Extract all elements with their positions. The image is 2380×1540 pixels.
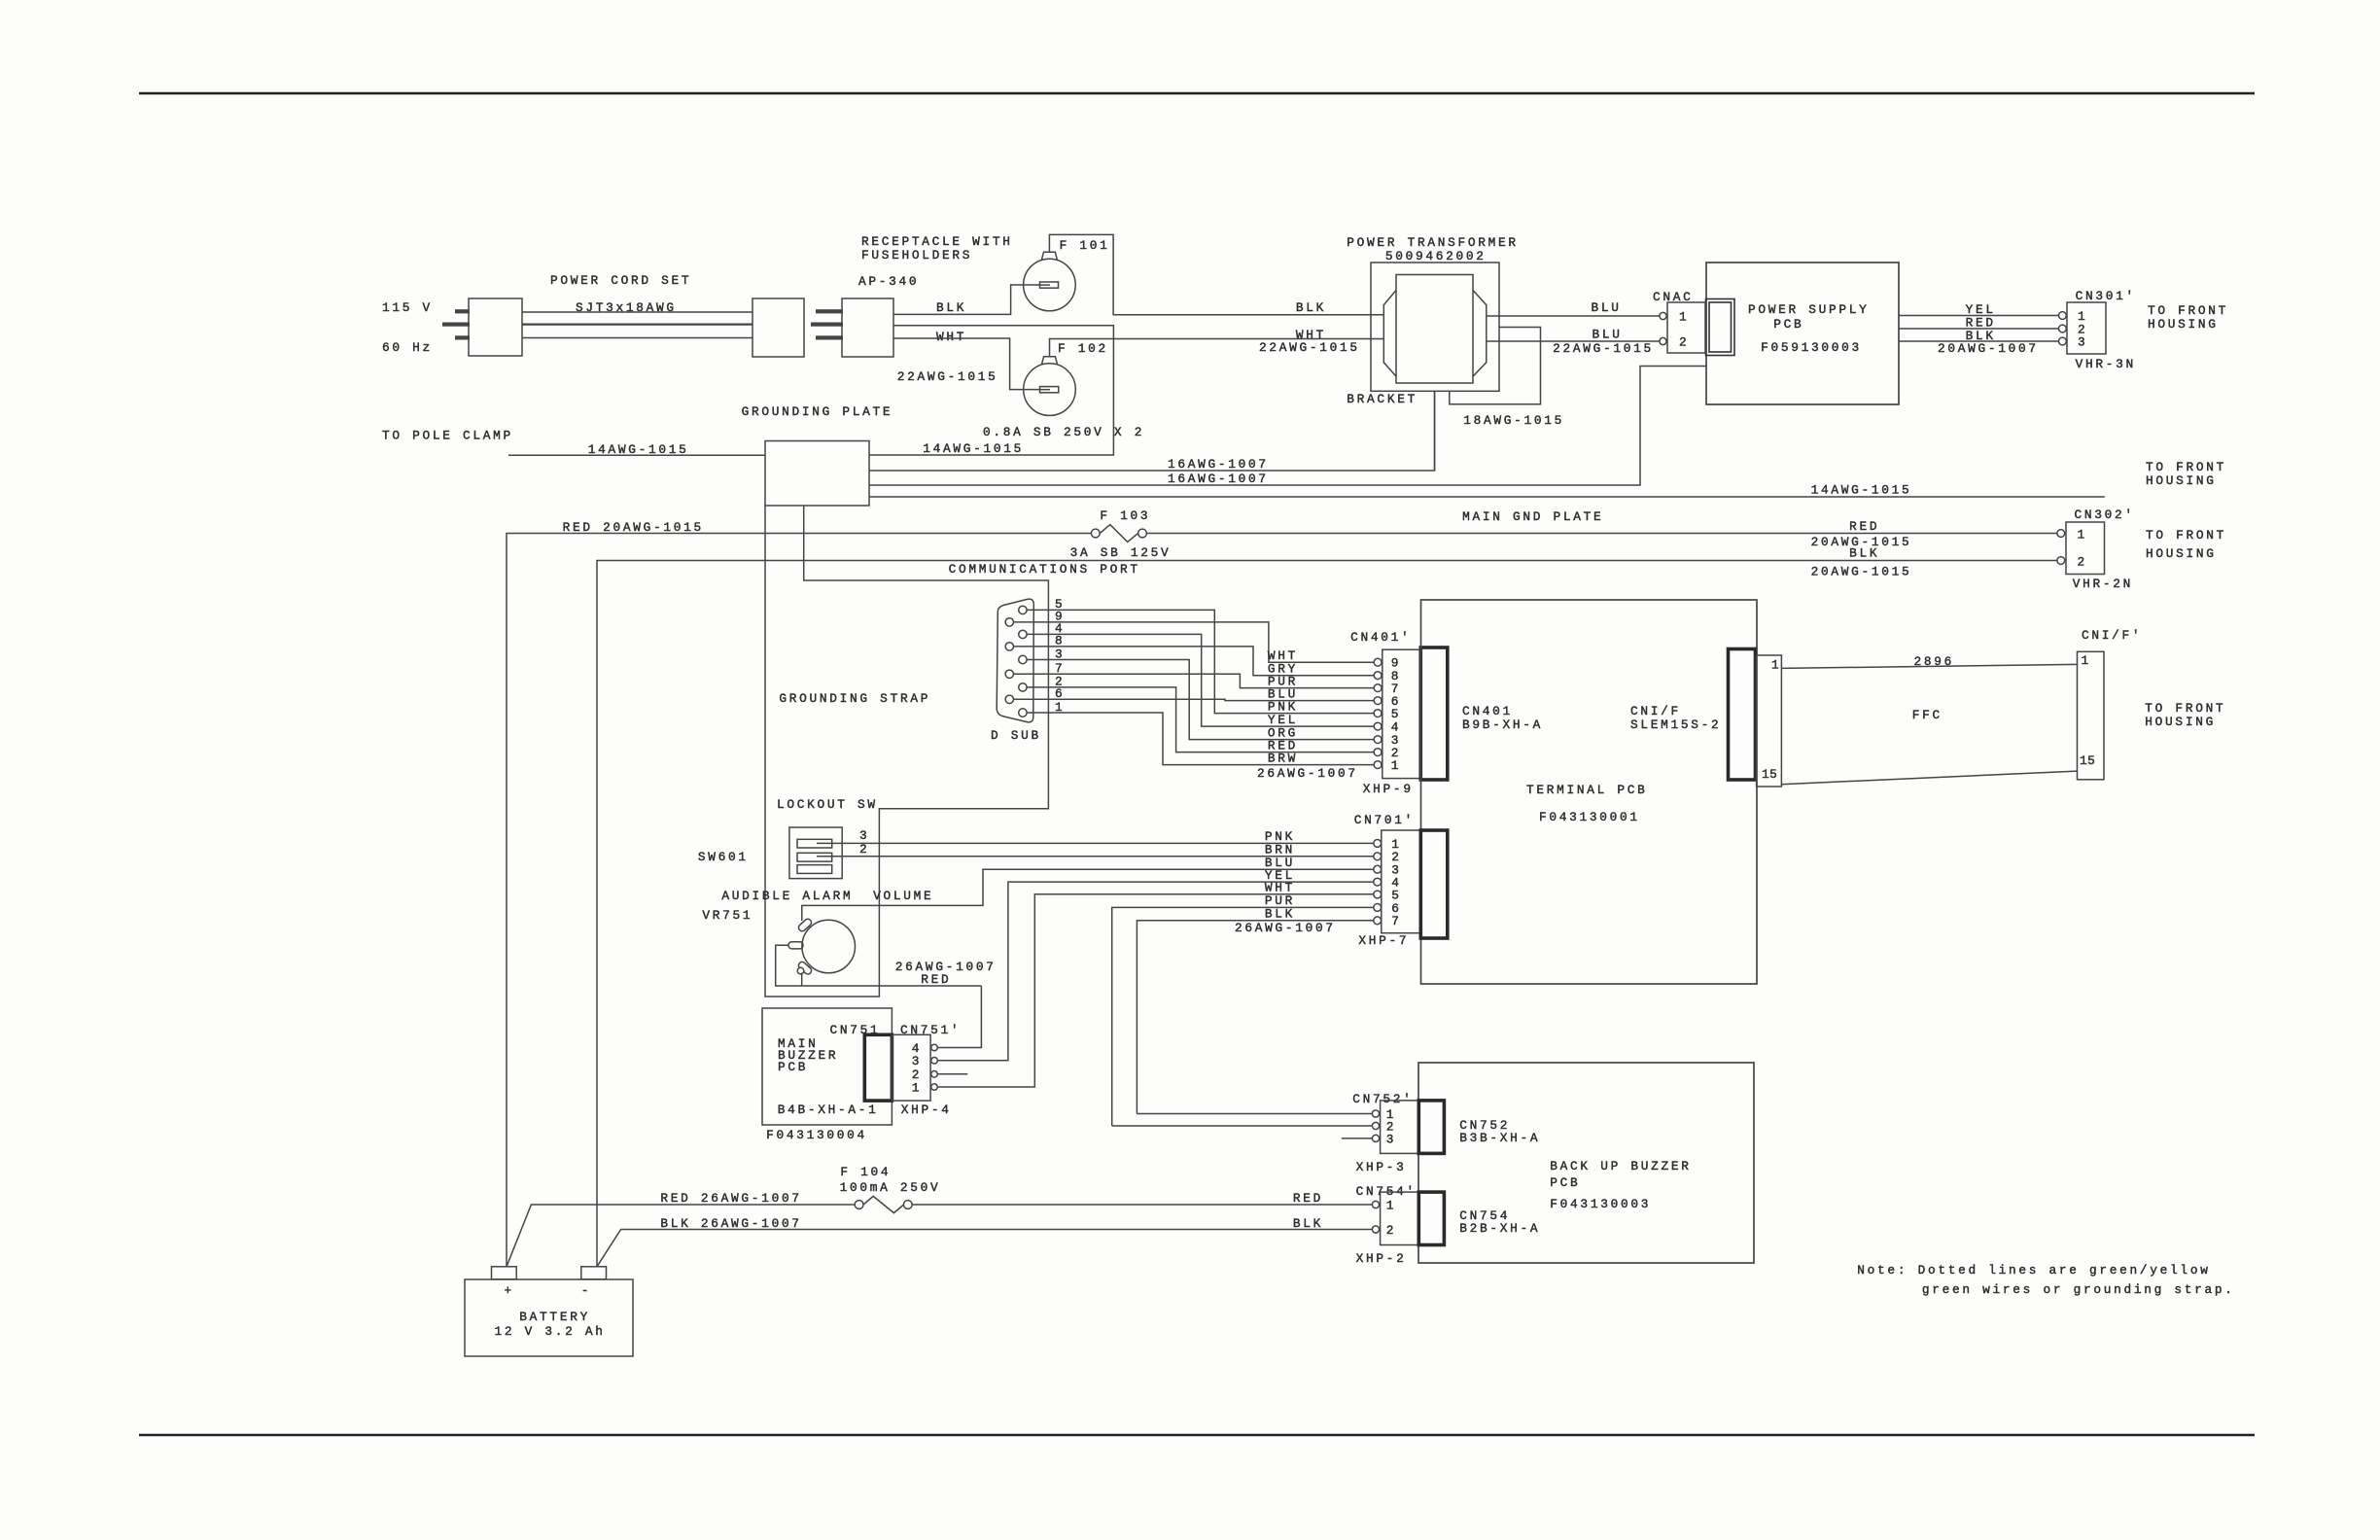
svg-text:TO FRONT: TO FRONT [2146, 528, 2226, 542]
fuse F101 cap [1042, 252, 1058, 260]
CN302' pin 2 [2057, 557, 2065, 565]
svg-text:PCB: PCB [1550, 1175, 1580, 1190]
svg-text:2896: 2896 [1914, 654, 1955, 669]
fuse F101 body [1024, 259, 1076, 311]
wire BLK 20AWG battery- riser to CN302 pin2 [597, 561, 2057, 1267]
svg-text:D SUB: D SUB [991, 728, 1041, 743]
svg-text:AUDIBLE ALARM VOLUME: AUDIBLE ALARM VOLUME [721, 889, 933, 903]
svg-text:CN401: CN401 [1462, 704, 1513, 718]
receptacle with fuseholders AP-340 body [842, 298, 893, 357]
svg-text:HOUSING: HOUSING [2146, 473, 2217, 488]
wire YEL power supply to CN301 pin1 [1899, 315, 2059, 317]
svg-text:VHR-3N: VHR-3N [2076, 357, 2136, 371]
wire D-SUB pin 3 to CN401' [1023, 660, 1378, 740]
VR751 wiper circle [797, 967, 804, 974]
svg-text:HOUSING: HOUSING [2145, 715, 2216, 729]
wire F102 output WHT to transformer [1050, 339, 1384, 357]
svg-text:XHP-7: XHP-7 [1358, 933, 1409, 948]
wire 16AWG-1007 to power supply pcb ground [869, 367, 1706, 486]
svg-text:F 102: F 102 [1058, 341, 1108, 356]
wire D-SUB pin 4 to CN401' [1023, 634, 1378, 726]
connector CNI/F' body [2078, 651, 2105, 780]
wire 14AWG-1015 to front housing [869, 496, 2105, 498]
svg-text:TO FRONT: TO FRONT [2146, 460, 2226, 474]
svg-text:F 101: F 101 [1060, 238, 1110, 253]
svg-text:5009462002: 5009462002 [1385, 249, 1487, 263]
svg-text:16AWG-1007: 16AWG-1007 [1168, 457, 1269, 472]
connector CN754' body [1381, 1192, 1419, 1244]
transformer right winding [1473, 291, 1487, 377]
svg-text:115 V: 115 V [382, 300, 433, 315]
svg-text:POWER TRANSFORMER: POWER TRANSFORMER [1347, 235, 1518, 250]
D-SUB pin 1 [1019, 709, 1027, 717]
wire RED 26AWG to CN751' pin4 [934, 986, 981, 1048]
svg-text:TO FRONT: TO FRONT [2145, 701, 2225, 716]
wire BLU transformer to CNAC pin1 [1487, 315, 1660, 317]
CN701' pin 2 [1374, 853, 1382, 860]
svg-text:1: 1 [912, 1080, 922, 1095]
power cord wires [522, 311, 752, 313]
connector CN751' body [892, 1034, 930, 1101]
connector CNAC' body [1667, 302, 1705, 353]
svg-text:2: 2 [859, 842, 869, 857]
terminal pcb body [1421, 600, 1758, 984]
svg-text:BRACKET: BRACKET [1347, 392, 1417, 406]
fuse F102 cap [1042, 357, 1058, 365]
wire bracket to grounding plate [1434, 391, 1436, 471]
CN701' pin 6 [1374, 904, 1382, 912]
svg-text:15: 15 [1762, 767, 1777, 782]
connector CN701' body [1382, 830, 1420, 933]
wire D-SUB pin 8 to CN401' [1009, 647, 1378, 676]
svg-text:SLEM15S-2: SLEM15S-2 [1630, 717, 1721, 732]
CN751' pin 4 [931, 1044, 938, 1051]
D-SUB pin 8 [1005, 643, 1013, 650]
wire WHT receptacle to F102 [893, 338, 1024, 390]
svg-text:14AWG-1015: 14AWG-1015 [1811, 483, 1912, 498]
svg-text:22AWG-1015: 22AWG-1015 [1259, 340, 1360, 355]
CN401' pin 5 [1374, 710, 1382, 717]
CNAC pin 2 [1660, 337, 1666, 344]
svg-text:6: 6 [1055, 686, 1065, 701]
D-SUB connector body [997, 599, 1033, 722]
grounding strap [765, 506, 1048, 997]
svg-text:CN752': CN752' [1352, 1092, 1413, 1106]
connector CN301' body [2067, 302, 2106, 354]
AC plug P1 body [469, 298, 522, 356]
svg-text:F 104: F 104 [840, 1165, 891, 1179]
svg-text:3: 3 [912, 1054, 922, 1068]
svg-text:7: 7 [1055, 661, 1065, 676]
svg-text:20AWG-1007: 20AWG-1007 [1938, 341, 2039, 356]
CN752' pin 1 [1372, 1110, 1379, 1117]
D-SUB pin 5 [1019, 606, 1027, 613]
svg-text:14AWG-1015: 14AWG-1015 [923, 441, 1024, 456]
CN401' pin 8 [1374, 672, 1382, 680]
CN751' pin 3 [931, 1058, 938, 1065]
connector CN401 on terminal pcb [1420, 647, 1448, 780]
svg-text:RECEPTACLE WITH: RECEPTACLE WITH [861, 234, 1013, 249]
back up buzzer pcb body [1418, 1063, 1754, 1263]
wire D-SUB pin 2 to CN401' [1023, 687, 1378, 752]
wire BLK CN701 pin7 to CN752' pin1 [1137, 921, 1377, 1114]
power supply pcb body [1706, 262, 1899, 404]
svg-text:F059130003: F059130003 [1761, 340, 1862, 355]
svg-text:-: - [581, 1283, 591, 1298]
connector CN752' body [1381, 1101, 1419, 1154]
AC plug P1 prongs [455, 309, 470, 313]
svg-text:POWER CORD SET: POWER CORD SET [550, 273, 691, 288]
svg-text:Note: Dotted lines are green/y: Note: Dotted lines are green/yellow [1857, 1263, 2210, 1277]
page top border line [139, 92, 2255, 94]
switch SW601 body [789, 827, 842, 879]
svg-text:FFC: FFC [1912, 708, 1942, 722]
wire RED F104 to CN754' pin1 [912, 1204, 1376, 1206]
svg-text:100mA 250V: 100mA 250V [840, 1180, 941, 1195]
svg-text:20AWG-1015: 20AWG-1015 [1811, 565, 1912, 579]
svg-text:BACK UP BUZZER: BACK UP BUZZER [1550, 1159, 1691, 1173]
SW601 keys [797, 839, 832, 848]
svg-text:TO POLE CLAMP: TO POLE CLAMP [382, 429, 513, 443]
svg-text:RED: RED [1293, 1191, 1323, 1206]
svg-text:XHP-2: XHP-2 [1356, 1251, 1407, 1266]
CN701' pin 4 [1374, 878, 1382, 886]
svg-text:PCB: PCB [778, 1060, 808, 1074]
connector CN752 on back up buzzer pcb [1418, 1101, 1444, 1154]
CN401' pin 1 [1374, 761, 1382, 769]
wire D-SUB pin 1 to CN401' [1023, 713, 1378, 765]
CN751' pin 2 [931, 1071, 938, 1078]
svg-text:XHP-9: XHP-9 [1363, 782, 1414, 796]
svg-text:B4B-XH-A-1: B4B-XH-A-1 [778, 1102, 879, 1117]
svg-text:0.8A SB 250V X 2: 0.8A SB 250V X 2 [983, 425, 1144, 439]
connector CNAC on power supply pcb [1706, 299, 1735, 356]
svg-text:PCB: PCB [1773, 317, 1803, 332]
wire PUR CN701 pin6 to CN752' pin2 [1112, 907, 1378, 1126]
CN701' pin 7 [1374, 917, 1382, 925]
CN754' pin 2 [1372, 1226, 1379, 1233]
wire BLK power supply to CN301 pin3 [1899, 340, 2059, 342]
CN701' pin 3 [1374, 865, 1382, 873]
svg-text:26AWG-1007: 26AWG-1007 [1257, 766, 1358, 781]
svg-text:POWER SUPPLY: POWER SUPPLY [1748, 302, 1870, 317]
main buzzer pcb body [762, 1008, 892, 1125]
svg-text:F 103: F 103 [1100, 508, 1150, 523]
svg-text:16AWG-1007: 16AWG-1007 [1168, 472, 1269, 486]
CN401' pin 7 [1374, 684, 1382, 692]
wire BLK receptacle to F101 [893, 285, 1024, 314]
svg-text:HOUSING: HOUSING [2146, 546, 2217, 561]
svg-text:3: 3 [2078, 335, 2087, 350]
svg-text:3: 3 [1055, 647, 1065, 661]
CN752' pin 2 [1372, 1122, 1379, 1129]
svg-text:3A SB 125V: 3A SB 125V [1070, 545, 1172, 560]
CN302' pin 1 [2057, 530, 2065, 538]
CN401' pin 3 [1374, 736, 1382, 744]
grounding plate body [765, 441, 869, 507]
transformer core body [1396, 275, 1473, 384]
svg-text:F043130004: F043130004 [766, 1128, 867, 1142]
svg-text:COMMUNICATIONS PORT: COMMUNICATIONS PORT [949, 562, 1140, 577]
fuse F103 [1091, 529, 1100, 538]
svg-text:CN301': CN301' [2076, 289, 2136, 303]
svg-text:1: 1 [1679, 310, 1689, 325]
wire BLK battery- to CN754' pin2 [597, 1230, 1376, 1267]
svg-text:XHP-3: XHP-3 [1356, 1160, 1407, 1174]
wire WHT CN701 pin5 to CN751' pin1 [934, 894, 1378, 1087]
svg-text:9: 9 [1055, 610, 1065, 624]
fuse F101 element [1024, 284, 1040, 286]
wire D-SUB pin 7 to CN401' [1009, 674, 1378, 687]
svg-text:+: + [505, 1283, 514, 1298]
CN301' pin 2 [2059, 325, 2067, 332]
svg-text:22AWG-1015: 22AWG-1015 [897, 369, 998, 384]
connector CN701 on terminal pcb [1420, 830, 1448, 938]
wire D-SUB pin 6 to CN401' [1009, 699, 1378, 700]
svg-text:1: 1 [1055, 700, 1065, 715]
CN701' pin 1 [1374, 840, 1382, 848]
fuse F102 body [1024, 364, 1076, 416]
wire SW601 pin2 BRN to CN701 pin2 [817, 856, 1378, 857]
svg-text:MAIN GND PLATE: MAIN GND PLATE [1462, 509, 1603, 524]
svg-text:XHP-4: XHP-4 [901, 1102, 952, 1117]
svg-text:CN302': CN302' [2075, 507, 2135, 522]
svg-text:RED: RED [1849, 519, 1879, 534]
svg-text:2: 2 [1386, 1223, 1396, 1238]
svg-text:GROUNDING PLATE: GROUNDING PLATE [742, 404, 893, 419]
svg-text:B9B-XH-A: B9B-XH-A [1462, 717, 1543, 732]
D-SUB pin 7 [1005, 670, 1013, 678]
svg-text:60 Hz: 60 Hz [382, 340, 433, 355]
svg-text:TERMINAL PCB: TERMINAL PCB [1526, 783, 1648, 797]
D-SUB pin 3 [1019, 655, 1027, 663]
CN401' pin 2 [1374, 749, 1382, 756]
svg-text:22AWG-1015: 22AWG-1015 [1553, 341, 1654, 356]
svg-text:CNI/F: CNI/F [1630, 704, 1681, 718]
wire YEL CN701 pin4 to CN751' pin3 [934, 882, 1378, 1061]
battery + terminal [492, 1267, 517, 1279]
svg-text:2: 2 [1679, 335, 1689, 350]
CN301' pin 3 [2059, 337, 2067, 345]
svg-text:BATTERY: BATTERY [519, 1310, 590, 1324]
svg-text:WHT: WHT [936, 330, 966, 344]
svg-text:18AWG-1015: 18AWG-1015 [1463, 413, 1564, 428]
connector CNI/F on terminal pcb [1729, 649, 1756, 781]
CN301' pin 1 [2059, 312, 2067, 320]
wire BLU transformer to CNAC pin2 [1487, 340, 1660, 342]
svg-text:BLK: BLK [1265, 907, 1295, 922]
svg-text:BLK: BLK [936, 300, 966, 315]
svg-text:HOUSING: HOUSING [2148, 317, 2219, 332]
FFC connector left body [1757, 655, 1782, 787]
transformer bracket outline [1371, 262, 1499, 391]
cord connector body [752, 298, 804, 357]
connector CN751 on main buzzer pcb [864, 1034, 892, 1101]
svg-text:green wires or grounding strap: green wires or grounding strap. [1922, 1282, 2235, 1297]
wire VR751 top BLU to CN701 pin3 [802, 869, 1378, 921]
wire F101 output [1049, 234, 1383, 314]
wire RED battery+ to F104 [507, 1205, 855, 1267]
CN751' pin 1 [931, 1084, 938, 1091]
svg-text:1: 1 [1771, 658, 1781, 673]
svg-text:15: 15 [2080, 753, 2095, 768]
D-SUB pin 9 [1005, 618, 1013, 626]
wire RED 20AWG battery+ riser [507, 534, 1091, 1267]
svg-text:1: 1 [1391, 758, 1401, 773]
connector CN302' body [2066, 522, 2105, 575]
battery - terminal [581, 1267, 607, 1279]
svg-text:8: 8 [1055, 634, 1065, 648]
wire D-SUB pin 9 to CN401' [1009, 622, 1378, 662]
svg-text:1: 1 [1386, 1198, 1396, 1212]
svg-text:BLU: BLU [1592, 300, 1622, 315]
battery body [465, 1279, 633, 1356]
wire VR751 ground loop [776, 945, 982, 986]
D-SUB pin 6 [1005, 695, 1013, 703]
svg-text:F043130003: F043130003 [1550, 1197, 1651, 1211]
svg-text:7: 7 [1391, 914, 1401, 928]
svg-text:CN401': CN401' [1350, 630, 1411, 645]
transformer left winding [1383, 291, 1396, 377]
svg-text:1: 1 [2082, 653, 2091, 668]
svg-text:GROUNDING STRAP: GROUNDING STRAP [779, 691, 930, 706]
svg-text:LOCKOUT SW: LOCKOUT SW [777, 797, 878, 812]
svg-text:F043130001: F043130001 [1539, 810, 1640, 824]
CNAC pin 1 [1660, 312, 1666, 319]
wire 16AWG-1007 to transformer bracket [869, 391, 1435, 471]
CN701' pin 5 [1374, 891, 1382, 898]
svg-text:BLU: BLU [1592, 328, 1623, 342]
FFC cable [1781, 664, 2077, 668]
wire pole clamp to grounding plate [508, 454, 765, 456]
svg-text:3: 3 [1386, 1132, 1396, 1146]
svg-text:VR751: VR751 [702, 908, 752, 923]
svg-text:BRW: BRW [1268, 752, 1298, 766]
svg-text:26AWG-1007: 26AWG-1007 [1235, 921, 1336, 935]
svg-text:12 V 3.2 Ah: 12 V 3.2 Ah [495, 1324, 606, 1339]
svg-text:SW601: SW601 [698, 850, 749, 864]
svg-text:RED: RED [921, 972, 951, 987]
bracket ground loop 18AWG-1015 [1450, 328, 1541, 404]
svg-text:BLK: BLK [1293, 1216, 1323, 1231]
fuse F102 element [1024, 389, 1040, 391]
wire D-SUB pin 5 to CN401' [1023, 610, 1378, 713]
wire ground receptacle to grounding plate [869, 326, 1113, 455]
CN401' pin 6 [1374, 697, 1382, 705]
svg-text:AP-340: AP-340 [858, 274, 919, 289]
svg-text:VHR-2N: VHR-2N [2073, 577, 2133, 591]
potentiometer VR751 body [802, 920, 856, 973]
connector CN401' body [1382, 649, 1419, 778]
VR751 terminal stubs [797, 918, 813, 932]
wire RED 20AWG to CN302 pin1 [1146, 533, 2057, 535]
connector CN754 on back up buzzer pcb [1418, 1192, 1444, 1244]
svg-text:TO FRONT: TO FRONT [2148, 303, 2228, 318]
svg-text:FUSEHOLDERS: FUSEHOLDERS [861, 248, 972, 262]
svg-text:3: 3 [859, 828, 869, 843]
svg-text:RED 26AWG-1007: RED 26AWG-1007 [660, 1191, 801, 1206]
wire RED power supply to CN301 pin2 [1899, 328, 2059, 330]
CN401' pin 4 [1374, 722, 1382, 730]
svg-text:BLK: BLK [1296, 300, 1326, 315]
D-SUB pin 2 [1019, 683, 1027, 691]
svg-text:2: 2 [2078, 555, 2087, 570]
CN752' pin 3 [1372, 1135, 1379, 1141]
wire CN752' pin3 stub [1342, 1137, 1373, 1139]
CN754' pin 1 [1372, 1201, 1379, 1207]
svg-text:CNI/F': CNI/F' [2082, 628, 2142, 643]
wire SW601 pin3 PNK to CN701 pin1 [817, 842, 1378, 844]
svg-text:BLK: BLK [1849, 546, 1879, 561]
AP-340 plug prongs [816, 309, 843, 313]
svg-text:1: 1 [2078, 528, 2087, 542]
svg-text:CN701': CN701' [1354, 813, 1415, 827]
page bottom border line [139, 1434, 2255, 1436]
D-SUB pin 4 [1019, 630, 1027, 638]
fuse F104 [855, 1201, 863, 1209]
CN401' pin 9 [1374, 658, 1382, 666]
wire CN751' pin2 stub [937, 1073, 967, 1075]
svg-text:B3B-XH-A: B3B-XH-A [1459, 1131, 1540, 1145]
svg-text:B2B-XH-A: B2B-XH-A [1459, 1221, 1540, 1236]
